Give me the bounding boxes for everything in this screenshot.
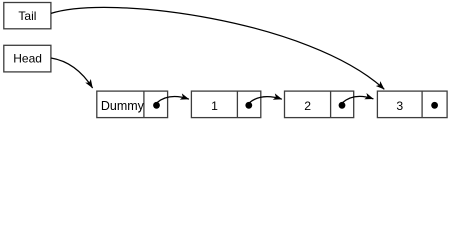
wire: node 1 dot to node 2 (curved arrow) (250, 97, 282, 103)
node 2 box (285, 91, 354, 118)
svg-text:2: 2 (304, 99, 311, 113)
node 1 pointer dot (245, 102, 252, 109)
wire: node 2 dot to node 3 (curved arrow) (343, 96, 374, 102)
node Dummy box (97, 91, 168, 118)
svg-text:Head: Head (13, 51, 42, 65)
node 2 pointer dot (339, 102, 346, 109)
node 3 pointer dot (431, 102, 438, 109)
node 3 box (377, 91, 447, 118)
node Dummy pointer dot (153, 102, 160, 109)
box Tail (4, 3, 51, 29)
svg-text:Tail: Tail (18, 9, 36, 23)
wire: Head to Dummy (curved arrow) (51, 58, 93, 88)
wire: Tail to node 3 (curved arrow) (51, 7, 384, 89)
svg-text:Dummy: Dummy (101, 99, 145, 113)
svg-text:3: 3 (396, 99, 403, 113)
wire: Dummy dot to node 1 (curved arrow) (157, 97, 189, 103)
node 1 box (191, 91, 260, 118)
box Head (4, 45, 51, 72)
svg-text:1: 1 (211, 99, 218, 113)
